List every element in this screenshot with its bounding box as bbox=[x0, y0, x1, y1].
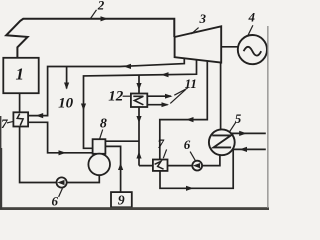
svg-text:9: 9 bbox=[118, 193, 125, 208]
svg-text:6: 6 bbox=[184, 137, 191, 152]
svg-text:3: 3 bbox=[199, 11, 207, 26]
svg-text:7: 7 bbox=[158, 136, 165, 151]
svg-text:1: 1 bbox=[16, 65, 25, 84]
svg-text:7: 7 bbox=[1, 116, 8, 131]
svg-text:8: 8 bbox=[100, 117, 107, 132]
svg-text:6: 6 bbox=[52, 194, 59, 209]
svg-text:5: 5 bbox=[235, 111, 242, 126]
svg-text:2: 2 bbox=[97, 0, 105, 13]
svg-text:11: 11 bbox=[185, 76, 197, 91]
svg-text:4: 4 bbox=[248, 10, 256, 25]
svg-text:12: 12 bbox=[108, 89, 124, 105]
svg-text:10: 10 bbox=[58, 96, 74, 112]
